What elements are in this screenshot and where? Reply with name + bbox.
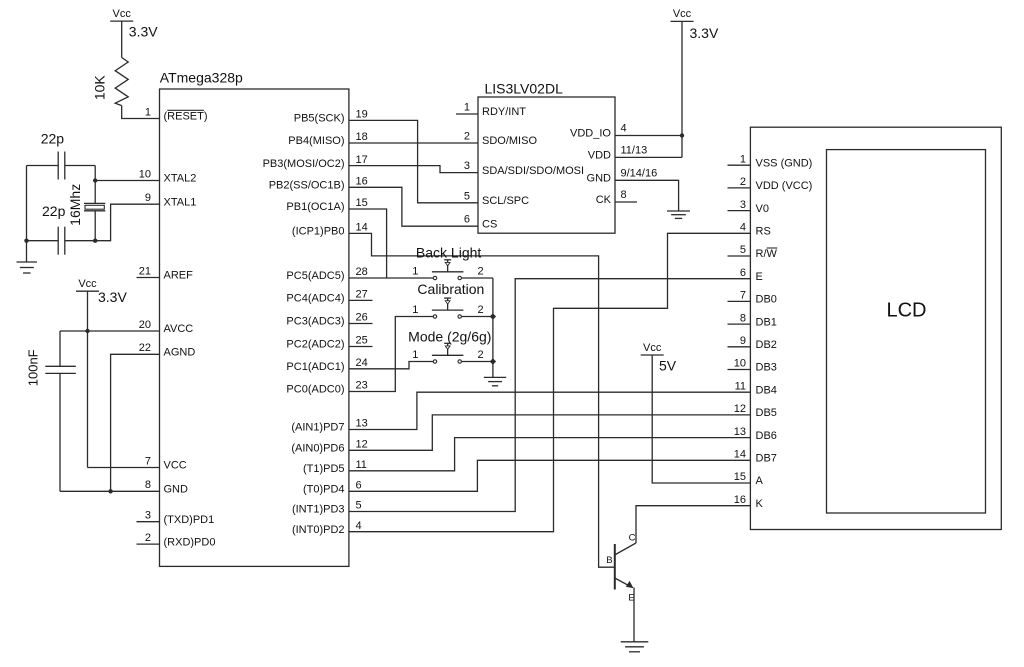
wire (AIN1)PD7 to DB4 [349,392,751,429]
svg-text:27: 27 [356,289,368,301]
svg-text:7: 7 [145,455,151,467]
LCD pin 7 DB0 [728,290,777,306]
power Vcc 5V V4 [641,342,677,374]
capacitor C2 22p [42,203,66,255]
svg-text:2: 2 [477,349,483,361]
wire C3 bottom lead [59,373,61,491]
node crystal bottom junction [93,239,97,243]
svg-text:Vcc: Vcc [673,8,692,20]
svg-text:5: 5 [740,244,746,256]
LCD pin 5 R/W [728,244,778,260]
svg-text:16: 16 [734,494,746,506]
ATmega328p pin 20 AVCC [139,319,194,335]
wire crystal top lead [94,166,96,204]
LCD pin 14 DB7 [734,449,777,465]
svg-text:26: 26 [356,312,368,324]
svg-text:ATmega328p: ATmega328p [160,70,243,86]
wire C3 top lead [59,331,61,366]
wire AGND pin 22 [111,354,160,491]
LIS3LV02DL pin 2 SDO/MISO [464,131,538,148]
svg-text:Back Light: Back Light [416,244,481,260]
svg-text:1: 1 [145,106,151,118]
ATmega328p pin 19 PB5(SCK) [294,109,368,125]
svg-text:21: 21 [139,265,151,277]
wire (T1)PD5 to DB6 [349,438,751,471]
svg-text:PB4(MISO): PB4(MISO) [288,135,344,147]
wire PB5(SCK) to SCL/SPC [349,120,478,202]
svg-text:3: 3 [740,199,746,211]
LCD pin 12 DB5 [734,403,777,419]
svg-text:3.3V: 3.3V [98,289,127,305]
svg-text:PC5(ADC5): PC5(ADC5) [286,270,344,282]
svg-text:(RESET): (RESET) [164,111,208,123]
svg-text:8: 8 [740,312,746,324]
switch SW1 Back Light [412,244,483,279]
wire 5V to LCD A pin 15 [652,355,750,483]
svg-text:PB1(OC1A): PB1(OC1A) [286,201,344,213]
svg-text:23: 23 [356,380,368,392]
svg-text:Vcc: Vcc [113,8,132,20]
svg-text:2: 2 [477,304,483,316]
wire SW3 pin 2 to ground rail [462,361,493,363]
svg-text:PB3(MOSI/OC2): PB3(MOSI/OC2) [263,158,345,170]
LCD pin 15 A [734,471,764,487]
svg-text:14: 14 [734,449,746,461]
wire left vertical rail [26,166,28,241]
wire PC5(ADC5) pin 28 to backlight contact [349,277,433,279]
svg-text:5: 5 [356,500,362,512]
node SW3 junction [490,358,496,364]
power Vcc 3.3V V3 [671,8,719,41]
svg-text:R/W: R/W [756,248,778,260]
svg-text:4: 4 [356,520,362,532]
ATmega328p pin 15 PB1(OC1A) [286,197,367,213]
svg-text:100nF: 100nF [25,349,40,386]
ATmega328p pin 3 (TXD)PD1 [137,510,215,526]
ATmega328p pin 4 (INT0)PD2 [292,520,362,536]
svg-text:(AIN1)PD7: (AIN1)PD7 [291,422,344,434]
svg-text:K: K [756,498,764,510]
svg-text:13: 13 [734,426,746,438]
svg-text:2: 2 [145,532,151,544]
svg-text:16: 16 [356,176,368,188]
LCD pin 11 DB4 [735,380,777,396]
svg-text:LCD: LCD [886,299,926,321]
svg-text:22p: 22p [42,203,66,219]
svg-text:PC4(ADC4): PC4(ADC4) [286,293,344,305]
wire button ground rail [492,278,494,377]
wire top rail to C1 [27,165,59,167]
svg-text:22: 22 [139,342,151,354]
svg-text:AREF: AREF [164,270,194,282]
ATmega328p pin 17 PB3(MOSI/OC2) [263,154,368,170]
svg-text:B: B [606,555,612,566]
power Vcc 3.3V V1 [110,8,158,39]
svg-text:6: 6 [464,214,470,226]
IC U2 LIS3LV02DL [478,80,615,233]
svg-text:1: 1 [412,349,418,361]
svg-text:4: 4 [621,123,627,135]
crystal Y1 16Mhz [67,184,106,226]
svg-text:XTAL1: XTAL1 [164,196,197,208]
svg-text:15: 15 [356,197,368,209]
ATmega328p pin 10 XTAL2 [139,168,197,184]
svg-text:2: 2 [464,131,470,143]
IC U1 ATmega328p [160,70,349,567]
LCD pin 2 VDD (VCC) [728,176,813,192]
svg-text:VDD: VDD [588,150,611,162]
svg-text:(T0)PD4: (T0)PD4 [303,484,345,496]
ATmega328p pin 25 PC2(ADC2) [286,335,372,351]
svg-text:6: 6 [740,267,746,279]
LIS3LV02DL pin 4 VDD_IO [570,123,627,140]
wire (T0)PD4 to DB7 [349,460,751,491]
node AVCC junction [85,329,89,333]
svg-text:24: 24 [356,357,368,369]
ground G1 [17,261,38,263]
ATmega328p pin 14 (ICP1)PB0 [292,222,368,238]
LCD pin 9 DB2 [728,335,777,351]
wire (AIN0)PD6 to DB5 [349,415,751,450]
ATmega328p pin 1 (RESET) [145,106,208,122]
svg-text:Mode (2g/6g): Mode (2g/6g) [408,328,491,344]
resistor R1 10K [92,58,129,106]
svg-text:(RXD)PD0: (RXD)PD0 [164,536,216,548]
svg-text:(T1)PD5: (T1)PD5 [303,463,345,475]
svg-text:DB3: DB3 [756,362,777,374]
wire rail to ground [26,241,28,262]
node XTAL2 junction [93,178,97,182]
wire PB2(SS) to CS [349,187,478,226]
svg-text:PC0(ADC0): PC0(ADC0) [286,384,344,396]
LIS3LV02DL pin 11/13 VDD [588,145,647,162]
svg-text:15: 15 [734,471,746,483]
svg-text:V0: V0 [756,203,769,215]
LIS3LV02DL pin 8 CK [596,189,637,206]
svg-text:11/13: 11/13 [621,145,648,157]
ATmega328p pin 18 PB4(MISO) [288,131,367,147]
wire (ICP1)PB0 to transistor base [349,233,614,567]
LCD pin 16 K [734,494,764,510]
wire XTAL2 to pin 10 [95,180,159,182]
svg-text:AVCC: AVCC [164,323,194,335]
ATmega328p pin 12 (AIN0)PD6 [291,439,367,455]
svg-text:10: 10 [734,358,746,370]
svg-text:9: 9 [145,192,151,204]
svg-text:RDY/INT: RDY/INT [482,106,526,118]
svg-text:3.3V: 3.3V [690,25,719,41]
LCD pin 1 VSS (GND) [728,153,813,169]
svg-text:SCL/SPC: SCL/SPC [482,195,529,207]
svg-text:16Mhz: 16Mhz [67,184,83,226]
wire PB3(MOSI) to SDA/SDI [349,166,478,173]
svg-text:3.3V: 3.3V [129,23,158,39]
svg-text:DB1: DB1 [756,316,777,328]
ATmega328p pin 13 (AIN1)PD7 [291,418,367,434]
svg-text:(AIN0)PD6: (AIN0)PD6 [291,443,344,455]
wire XTAL1 to pin 9 [95,204,159,241]
switch SW3 Mode (2g/6g) [408,328,491,363]
svg-text:18: 18 [356,131,368,143]
svg-text:22p: 22p [41,130,65,146]
svg-text:SDA/SDI/SDO/MOSI: SDA/SDI/SDO/MOSI [482,165,584,177]
svg-text:5V: 5V [659,358,677,374]
wire VDD pin 11/13 [615,156,682,158]
svg-text:VDD_IO: VDD_IO [570,128,611,140]
wire SW1 pin 2 to ground rail [462,277,493,279]
svg-text:1: 1 [412,304,418,316]
svg-text:PB2(SS/OC1B): PB2(SS/OC1B) [269,180,345,192]
svg-text:9: 9 [740,335,746,347]
ATmega328p pin 5 (INT1)PD3 [292,500,362,516]
LCD pin 6 E [740,267,763,283]
wire SW3 pin 1 to PC1 pin 24 [349,362,433,369]
ATmega328p pin 26 PC3(ADC3) [286,312,372,328]
ground G4 [621,641,649,643]
svg-text:1: 1 [740,153,746,165]
svg-text:8: 8 [621,189,627,201]
svg-text:GND: GND [164,484,189,496]
LCD pin 13 DB6 [734,426,777,442]
svg-text:(INT1)PD3: (INT1)PD3 [292,504,345,516]
svg-text:CS: CS [482,218,497,230]
svg-text:(ICP1)PB0: (ICP1)PB0 [292,226,345,238]
svg-text:20: 20 [139,319,151,331]
svg-text:1: 1 [412,266,418,278]
transistor Q1 NPN [606,532,636,603]
svg-text:8: 8 [145,479,151,491]
svg-text:17: 17 [356,154,368,166]
wire Vcc to R1 [121,21,123,57]
wire bottom rail right [65,240,95,242]
svg-text:3: 3 [145,510,151,522]
svg-text:5: 5 [464,190,470,202]
ATmega328p pin 21 AREF [137,265,194,281]
svg-text:LIS3LV02DL: LIS3LV02DL [485,80,564,96]
wire (INT1)PD3 to E [349,279,751,512]
svg-text:A: A [756,475,764,487]
svg-text:28: 28 [356,266,368,278]
wire PB4(MISO) to SDO/MISO [349,142,478,144]
ATmega328p pin 2 (RXD)PD0 [137,532,216,548]
svg-text:VCC: VCC [164,460,187,472]
ATmega328p pin 23 PC0(ADC0) [286,380,367,396]
svg-text:10K: 10K [92,75,108,101]
LCD pin 3 V0 [728,199,769,215]
svg-text:VSS (GND): VSS (GND) [756,157,813,169]
wire Vcc down to VCC pin 7 [87,291,89,467]
svg-text:GND: GND [587,173,612,185]
svg-text:AGND: AGND [164,347,196,359]
IC U3 LCD module [750,127,1001,529]
svg-text:3: 3 [464,160,470,172]
ATmega328p pin 16 PB2(SS/OC1B) [269,176,368,192]
LIS3LV02DL pin 5 SCL/SPC [464,190,529,207]
ATmega328p pin 8 GND [145,479,188,495]
svg-text:Vcc: Vcc [643,342,662,354]
wire (INT0)PD2 to RS [349,233,751,531]
LCD pin 10 DB3 [728,358,777,374]
wire R1 to RESET pin 1 [122,106,160,119]
svg-text:(INT0)PD2: (INT0)PD2 [292,524,345,536]
svg-text:10: 10 [139,168,151,180]
svg-text:12: 12 [356,439,368,451]
svg-text:VDD (VCC): VDD (VCC) [756,180,813,192]
ground G2 [484,376,506,378]
svg-text:E: E [756,271,763,283]
svg-text:DB2: DB2 [756,339,777,351]
wire SW2 pin 2 to ground rail [462,316,493,318]
wire VCC pin 7 [88,467,160,469]
wire AVCC pin 20 [60,330,160,332]
svg-text:PB5(SCK): PB5(SCK) [294,113,345,125]
node AGND/GND junction [108,489,112,493]
svg-text:1: 1 [464,102,470,114]
svg-text:12: 12 [734,403,746,415]
ATmega328p pin 24 PC1(ADC1) [286,357,367,373]
ATmega328p pin 6 (T0)PD4 [303,480,362,496]
svg-text:4: 4 [740,222,746,234]
svg-text:14: 14 [356,222,368,234]
ATmega328p pin 28 PC5(ADC5) [286,266,367,282]
svg-text:C: C [629,532,636,543]
power Vcc 3.3V V2 [76,278,127,305]
wire C1 to crystal node [65,165,95,167]
capacitor C3 100nF [25,349,76,386]
svg-text:DB4: DB4 [756,384,777,396]
svg-text:PC3(ADC3): PC3(ADC3) [286,316,344,328]
wire LCD K pin 16 to collector [636,506,750,543]
ATmega328p pin 7 VCC [145,455,187,471]
switch SW2 Calibration [412,281,484,318]
svg-text:PC1(ADC1): PC1(ADC1) [286,361,344,373]
node SW2 junction [490,313,496,319]
node ground rail junction [24,239,28,243]
LIS3LV02DL pin 1 RDY/INT [456,102,526,119]
svg-text:XTAL2: XTAL2 [164,173,197,185]
svg-text:13: 13 [356,418,368,430]
wire SW2 pin 1 to PC0 pin 23 [349,317,433,392]
svg-text:DB0: DB0 [756,294,777,306]
LIS3LV02DL pin 3 SDA/SDI/SDO/MOSI [464,160,584,177]
LCD pin 4 RS [740,222,771,238]
svg-text:PC2(ADC2): PC2(ADC2) [286,339,344,351]
svg-text:DB5: DB5 [756,407,777,419]
LIS3LV02DL pin 6 CS [464,214,497,231]
svg-text:7: 7 [740,290,746,302]
svg-text:Vcc: Vcc [78,278,97,290]
svg-text:Calibration: Calibration [417,281,484,297]
svg-text:6: 6 [356,480,362,492]
wire bottom rail left [27,240,59,242]
wire GND pin 8 [60,490,160,492]
svg-text:(TXD)PD1: (TXD)PD1 [164,514,215,526]
wire GND pin 9/14/16 to ground [615,180,679,211]
ATmega328p pin 22 AGND [139,342,196,358]
ATmega328p pin 11 (T1)PD5 [303,459,367,475]
svg-text:11: 11 [735,380,746,392]
svg-text:DB6: DB6 [756,430,777,442]
svg-text:2: 2 [740,176,746,188]
ground G3 [667,210,690,212]
LIS3LV02DL pin 9/14/16 GND [587,168,658,185]
svg-text:9/14/16: 9/14/16 [621,168,658,180]
svg-text:11: 11 [356,459,367,471]
svg-text:19: 19 [356,109,368,121]
wire PB1(OC1A) to backlight switch [349,209,387,278]
svg-text:DB7: DB7 [756,453,777,465]
node VDD_IO junction [680,133,684,137]
LCD pin 8 DB1 [728,312,777,328]
wire Vcc to VDD_IO [681,21,683,157]
capacitor C1 22p [41,130,65,179]
ATmega328p pin 9 XTAL1 [145,192,196,208]
svg-text:SDO/MISO: SDO/MISO [482,135,537,147]
wire emitter to ground [633,588,635,642]
ATmega328p pin 27 PC4(ADC4) [286,289,372,305]
svg-text:CK: CK [596,194,612,206]
wire crystal bottom lead [94,211,96,241]
svg-text:2: 2 [477,266,483,278]
wire VDD_IO pin 4 [615,135,682,137]
svg-text:25: 25 [356,335,368,347]
svg-text:RS: RS [756,226,771,238]
